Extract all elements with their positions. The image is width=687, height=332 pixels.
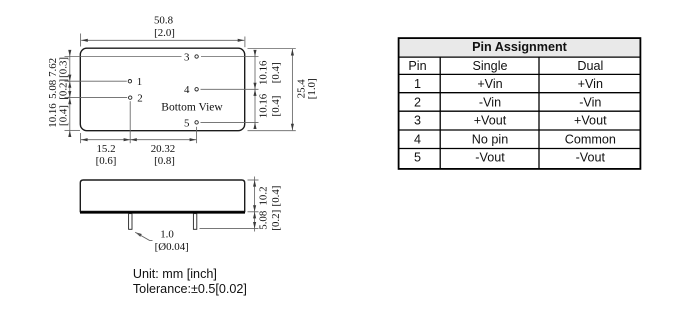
package outline (bottom view) [80, 48, 244, 131]
label: units note [133, 267, 247, 296]
svg-text:-Vout: -Vout [475, 151, 505, 165]
svg-text:Single: Single [472, 59, 507, 73]
svg-text:+Vout: +Vout [474, 114, 507, 128]
svg-text:20.32: 20.32 [151, 143, 176, 155]
svg-text:Dual: Dual [577, 59, 603, 73]
dimension right outer 25.4 [1.0] [248, 49, 319, 131]
svg-text:[0.3]: [0.3] [58, 57, 70, 78]
svg-text:3: 3 [184, 51, 190, 63]
svg-text:Pin Assignment: Pin Assignment [472, 40, 568, 54]
svg-text:+Vout: +Vout [574, 114, 607, 128]
table: Pin Assignment [399, 38, 641, 169]
svg-text:2: 2 [414, 95, 421, 109]
table inner lines [399, 57, 641, 169]
dimension right inner 10.16/10.16 [253, 50, 282, 129]
wire: pin4 extension line [201, 88, 259, 90]
svg-text:-Vout: -Vout [576, 151, 606, 165]
svg-text:[1.0]: [1.0] [306, 78, 318, 99]
pin (side view left) [129, 214, 132, 230]
svg-text:4: 4 [414, 132, 421, 146]
svg-text:[0.2]: [0.2] [270, 210, 282, 231]
svg-text:-Vin: -Vin [579, 95, 601, 109]
svg-text:Unit: mm [inch]: Unit: mm [inch] [133, 267, 217, 281]
pin 2 [129, 93, 143, 105]
pin (side view right) [193, 214, 196, 230]
svg-text:Tolerance:±0.5[0.02]: Tolerance:±0.5[0.02] [133, 282, 247, 296]
svg-text:5.08: 5.08 [258, 210, 270, 230]
svg-text:2: 2 [137, 93, 142, 105]
svg-text:[0.4]: [0.4] [58, 105, 70, 126]
svg-text:[0.2]: [0.2] [58, 79, 70, 100]
svg-text:-Vin: -Vin [479, 95, 501, 109]
wire: bottom-left edge extension [65, 129, 81, 131]
svg-text:1.0: 1.0 [160, 229, 174, 241]
dimension left stack 7.62/5.08/10.16 [47, 50, 71, 137]
wire: pin1 extension line [65, 80, 127, 82]
wire: side view right extensions [200, 180, 259, 229]
pin 3 [184, 51, 198, 63]
svg-text:[0.4]: [0.4] [270, 96, 282, 117]
svg-text:3: 3 [414, 114, 421, 128]
svg-text:1: 1 [414, 77, 421, 91]
svg-text:[Ø0.04]: [Ø0.04] [155, 241, 189, 253]
table outer border [399, 38, 641, 169]
dimension side 10.2 [0.4] and 5.08 [0.2] [253, 177, 282, 232]
svg-text:No pin: No pin [472, 132, 508, 146]
pin 1 [128, 76, 142, 88]
pin 5 [184, 117, 198, 129]
table header band [399, 38, 641, 57]
svg-text:[0.4]: [0.4] [270, 62, 282, 83]
svg-text:5: 5 [414, 151, 421, 165]
svg-text:[0.8]: [0.8] [154, 155, 175, 167]
svg-text:+Vin: +Vin [578, 77, 603, 91]
svg-text:[0.4]: [0.4] [270, 186, 282, 207]
svg-text:4: 4 [184, 84, 190, 96]
wire: pin3 extension line left+right [65, 56, 259, 58]
svg-text:[0.6]: [0.6] [96, 155, 117, 167]
wire: pin2 extension line [65, 97, 128, 99]
svg-text:[2.0]: [2.0] [154, 27, 175, 39]
svg-text:Pin: Pin [408, 59, 426, 73]
pin 4 [184, 84, 198, 96]
svg-text:Bottom View: Bottom View [161, 102, 223, 114]
svg-text:Common: Common [565, 132, 616, 146]
svg-text:1: 1 [137, 76, 142, 88]
svg-text:15.2: 15.2 [96, 143, 115, 155]
svg-text:10.16: 10.16 [258, 93, 270, 118]
leader + label 1.0 [Ø0.04] pin diameter [134, 229, 188, 253]
dimension bottom 15.2 [0.6] and 20.32 [0.8] [81, 101, 197, 167]
svg-text:10.2: 10.2 [258, 186, 270, 205]
svg-text:10.16: 10.16 [258, 60, 270, 85]
wire: pin5 extension line [201, 121, 259, 123]
package outline (side view) [80, 180, 245, 213]
svg-text:50.8: 50.8 [154, 15, 174, 27]
svg-text:+Vin: +Vin [477, 77, 502, 91]
svg-text:5: 5 [184, 117, 190, 129]
dimension 50.8 [2.0] top width [81, 15, 245, 48]
